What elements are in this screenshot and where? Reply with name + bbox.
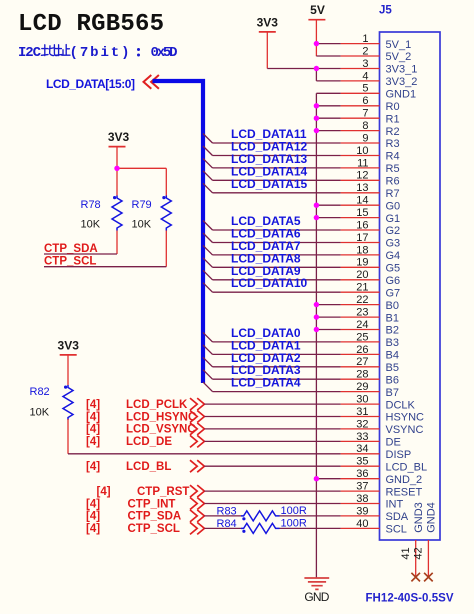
pin 20 stub — [341, 279, 380, 281]
pin 30 stub — [341, 403, 380, 405]
bus entry for LCD_DATA12 — [203, 146, 213, 156]
bus entry chevron for LCD_DATA[15:0] — [144, 75, 159, 89]
svg-text:[4]: [4] — [86, 411, 100, 423]
svg-text:9: 9 — [362, 132, 368, 144]
wire R8x to pin 39 — [280, 515, 341, 517]
svg-text:20: 20 — [356, 269, 368, 281]
wire 3V3 to R79 top — [165, 168, 167, 195]
wire LCD_DATA12 to pin 10 — [213, 155, 341, 157]
bus entry for LCD_DATA0 — [203, 332, 213, 342]
pin 19 stub — [341, 266, 380, 268]
pin 10 stub — [341, 155, 380, 157]
svg-text:3V3: 3V3 — [108, 130, 130, 144]
power symbol 3V3 (pins 3/4) — [257, 15, 279, 68]
resistor R82 body — [63, 385, 73, 420]
svg-text:16: 16 — [356, 219, 368, 231]
svg-text:B7: B7 — [386, 387, 399, 399]
svg-text:15: 15 — [356, 207, 368, 219]
svg-text:17: 17 — [356, 232, 368, 244]
bus entry for LCD_DATA3 — [203, 370, 213, 380]
junction GND pin22 — [314, 302, 319, 307]
pin 38 stub — [341, 503, 380, 505]
svg-text:LCD_DATA15: LCD_DATA15 — [231, 177, 308, 191]
pin 33 stub — [341, 440, 380, 442]
bus entry for LCD_DATA9 — [203, 270, 213, 280]
svg-text:12: 12 — [356, 170, 368, 182]
svg-text:3V3: 3V3 — [257, 15, 279, 29]
svg-text:R0: R0 — [386, 101, 400, 113]
svg-text:27: 27 — [356, 356, 368, 368]
pin 12 stub — [341, 179, 380, 181]
wire LCD_BL to pin 35 — [204, 465, 340, 467]
svg-text:21: 21 — [356, 282, 368, 294]
bus entry for LCD_DATA1 — [203, 345, 213, 355]
svg-text:10K: 10K — [81, 219, 101, 231]
R79 pin1 dot — [162, 196, 165, 199]
svg-text:GND3: GND3 — [413, 502, 425, 533]
svg-text:33: 33 — [356, 431, 368, 443]
wire 5V to pin 1 — [316, 43, 340, 45]
svg-text:LCD_PCLK: LCD_PCLK — [126, 399, 188, 411]
svg-text:CTP_SDA: CTP_SDA — [128, 511, 182, 523]
svg-text:R84: R84 — [217, 518, 237, 530]
pin 1 stub — [341, 43, 380, 45]
svg-text:R7: R7 — [386, 188, 400, 200]
svg-text:34: 34 — [356, 443, 368, 455]
junction GND pin7 — [314, 116, 319, 121]
svg-text:37: 37 — [356, 481, 368, 493]
svg-text:SCL: SCL — [386, 524, 407, 536]
svg-text:3V3_2: 3V3_2 — [386, 76, 418, 88]
pin 26 stub — [341, 353, 380, 355]
power symbol 5V — [308, 3, 325, 56]
bus entry for LCD_DATA5 — [203, 221, 213, 231]
svg-text:5V_2: 5V_2 — [386, 51, 412, 63]
svg-text:11: 11 — [357, 157, 368, 169]
wire LCD_HSYNC to pin 31 — [204, 416, 340, 418]
svg-text:LCD_VSYNC: LCD_VSYNC — [126, 424, 196, 436]
pin 13 stub — [341, 192, 380, 194]
wire LCD_VSYNC to pin 32 — [204, 428, 340, 430]
R83 pin1 dot — [242, 517, 245, 520]
svg-text:HSYNC: HSYNC — [386, 412, 425, 424]
pin 24 stub — [341, 329, 380, 331]
svg-text:B5: B5 — [386, 362, 399, 374]
svg-text:GND4: GND4 — [426, 502, 438, 533]
svg-text:3V3_1: 3V3_1 — [386, 64, 418, 76]
pin 14 stub — [341, 204, 380, 206]
svg-text:B6: B6 — [386, 374, 399, 386]
svg-text:4: 4 — [362, 70, 368, 82]
svg-text:[4]: [4] — [86, 511, 100, 523]
wire LCD_DATA2 to pin 27 — [213, 366, 341, 368]
svg-text:G4: G4 — [386, 250, 401, 262]
pin 16 stub — [341, 229, 380, 231]
svg-text:32: 32 — [356, 418, 368, 430]
svg-text:CTP_SDA: CTP_SDA — [44, 243, 98, 255]
svg-text:3V3: 3V3 — [58, 339, 80, 353]
svg-text:R2: R2 — [386, 126, 400, 138]
pin 6 stub — [341, 105, 380, 107]
svg-text:25: 25 — [356, 331, 368, 343]
svg-text:G7: G7 — [386, 287, 401, 299]
pin 29 stub — [341, 391, 380, 393]
svg-text:DISP: DISP — [386, 449, 412, 461]
svg-text:10: 10 — [356, 145, 368, 157]
svg-text:LCD_DATA10: LCD_DATA10 — [231, 276, 308, 290]
svg-text:G2: G2 — [386, 225, 401, 237]
wire R8x to pin 40 — [280, 527, 341, 529]
power symbol 3V3 (R78/R79 pull-ups) — [108, 130, 130, 169]
pin 42 stub — [427, 540, 429, 577]
port chevron LCD_PCLK — [190, 398, 204, 410]
svg-text:18: 18 — [356, 244, 368, 256]
svg-text:[4]: [4] — [86, 461, 100, 473]
svg-text:I2C: I2C — [18, 45, 42, 61]
pin 35 stub — [341, 465, 380, 467]
wire LCD_DATA13 to pin 11 — [213, 167, 341, 169]
svg-text:0x5D: 0x5D — [151, 45, 178, 61]
wire LCD_DATA6 to pin 17 — [213, 242, 341, 244]
svg-text:(7bit): (7bit) — [70, 45, 130, 61]
svg-text:3: 3 — [362, 58, 368, 70]
pin 37 stub — [341, 490, 380, 492]
port chevron CTP_SDA — [190, 510, 204, 522]
wire CTP_SCL net — [44, 266, 166, 268]
wire GND rail to pin 8 — [316, 130, 340, 132]
pin 31 stub — [341, 416, 380, 418]
svg-text:R78: R78 — [81, 199, 101, 211]
wire GND rail to pin 24 — [316, 329, 340, 331]
svg-text:30: 30 — [356, 394, 368, 406]
svg-text:G3: G3 — [386, 238, 401, 250]
wire LCD_DATA8 to pin 19 — [213, 266, 341, 268]
wire LCD_DATA11 to pin 9 — [213, 142, 341, 144]
wire LCD_DATA1 to pin 26 — [213, 353, 341, 355]
svg-text:29: 29 — [356, 381, 368, 393]
port chevron CTP_INT — [190, 498, 204, 510]
svg-text:G6: G6 — [386, 275, 401, 287]
wire GND vertical rail — [315, 93, 317, 578]
wire GND rail to pin 7 — [316, 117, 340, 119]
svg-text:J5: J5 — [379, 5, 392, 17]
wire R78 bottom to CTP_SDA — [116, 231, 118, 255]
svg-text:23: 23 — [356, 307, 368, 319]
svg-text:LCD RGB565: LCD RGB565 — [18, 11, 164, 38]
pin 5 stub — [341, 92, 380, 94]
wire LCD_DATA3 to pin 28 — [213, 378, 341, 380]
junction 3V3 pin3 — [314, 66, 319, 71]
svg-text:B0: B0 — [386, 300, 399, 312]
bus entry for LCD_DATA8 — [203, 258, 213, 268]
bus entry for LCD_DATA10 — [203, 283, 213, 293]
wire CTP_RST to pin 37 — [204, 490, 340, 492]
svg-text:INT: INT — [386, 499, 404, 511]
svg-text:42: 42 — [413, 547, 425, 559]
pin 34 stub — [341, 453, 380, 455]
pin 17 stub — [341, 242, 380, 244]
wire 5V to pin 2 — [316, 55, 340, 57]
svg-text:[4]: [4] — [86, 424, 100, 436]
port chevron CTP_RST — [190, 485, 204, 497]
svg-text:G0: G0 — [386, 200, 401, 212]
wire R78/R79 top tie — [117, 167, 166, 169]
pin 3 stub — [341, 68, 380, 70]
svg-text:R82: R82 — [30, 386, 50, 398]
svg-text:5V_1: 5V_1 — [386, 39, 412, 51]
svg-text:100R: 100R — [281, 518, 307, 530]
junction GND pin24 — [314, 327, 319, 332]
pin 36 stub — [341, 478, 380, 480]
svg-text:R5: R5 — [386, 163, 400, 175]
pin 39 stub — [341, 515, 380, 517]
wire CTP_SDA net — [44, 253, 117, 255]
svg-text:CTP_INT: CTP_INT — [128, 498, 176, 510]
wire R79 bottom to CTP_SCL — [165, 231, 167, 267]
bus entry for LCD_DATA6 — [203, 233, 213, 243]
svg-text:LCD_DATA[15:0]: LCD_DATA[15:0] — [46, 77, 135, 91]
svg-text:DE: DE — [386, 437, 401, 449]
svg-text:1: 1 — [362, 33, 368, 45]
port chevron CTP_SCL — [190, 522, 204, 534]
svg-text:28: 28 — [356, 369, 368, 381]
junction GND pin15 — [314, 215, 319, 220]
svg-text:39: 39 — [356, 505, 368, 517]
wire LCD_DATA0 to pin 25 — [213, 341, 341, 343]
subtitle I2C address note — [18, 45, 178, 61]
bus entry for LCD_DATA11 — [203, 134, 213, 144]
wire LCD_DATA5 to pin 16 — [213, 229, 341, 231]
svg-text:10K: 10K — [30, 406, 50, 418]
port chevron LCD_VSYNC — [190, 423, 204, 435]
wire R82 bottom — [67, 419, 69, 454]
svg-text:10K: 10K — [132, 219, 152, 231]
svg-text:CTP_SCL: CTP_SCL — [128, 523, 180, 535]
bus entry for LCD_DATA7 — [203, 245, 213, 255]
svg-text:LCD_HSYNC: LCD_HSYNC — [126, 411, 196, 423]
bus entry for LCD_DATA15 — [203, 183, 213, 193]
resistor R78 body — [112, 196, 122, 231]
svg-text:B3: B3 — [386, 337, 399, 349]
svg-text:2: 2 — [362, 45, 368, 57]
wire LCD_DATA7 to pin 18 — [213, 254, 341, 256]
bus entry for LCD_DATA4 — [203, 382, 213, 392]
connector J5 body — [380, 32, 441, 540]
svg-text:R83: R83 — [217, 506, 237, 518]
wire LCD_DATA10 to pin 21 — [213, 291, 341, 293]
wire GND rail to pin 22 — [316, 304, 340, 306]
wire 3V3 to pin 4 — [316, 80, 340, 82]
wire CTP_INT to pin 38 — [204, 503, 340, 505]
wire LCD_DATA9 to pin 20 — [213, 279, 341, 281]
wire 3V3 to pin 3 — [267, 68, 340, 70]
svg-text:R6: R6 — [386, 176, 400, 188]
svg-text:CTP_SCL: CTP_SCL — [44, 256, 96, 268]
svg-text:[4]: [4] — [86, 523, 100, 535]
junction 5V pin1 — [314, 41, 319, 46]
wire LCD_DATA14 to pin 12 — [213, 179, 341, 181]
ground symbol GND — [304, 578, 329, 589]
bus entry for LCD_DATA2 — [203, 357, 213, 367]
no-connect X on pin 41 — [411, 573, 420, 582]
wire LCD_DE to pin 33 — [204, 440, 340, 442]
svg-text:5: 5 — [362, 83, 368, 95]
svg-text:GND1: GND1 — [386, 89, 417, 101]
svg-text:38: 38 — [356, 493, 368, 505]
pin 7 stub — [341, 117, 380, 119]
svg-text:GND: GND — [304, 590, 329, 604]
junction GND pin23 — [314, 314, 319, 319]
wire LCD_DATA4 to pin 29 — [213, 391, 341, 393]
pin 23 stub — [341, 316, 380, 318]
junction GND pin14 — [314, 203, 319, 208]
svg-text:R79: R79 — [132, 199, 152, 211]
wire 3V3 drop to pin 4 row — [315, 69, 317, 81]
svg-text:5V: 5V — [310, 3, 325, 17]
svg-text:G5: G5 — [386, 263, 401, 275]
wire GND to pin 5 — [316, 92, 340, 94]
junction GND pin36 — [314, 476, 319, 481]
wire LCD_PCLK to pin 30 — [204, 403, 340, 405]
R82 pin1 dot — [64, 386, 67, 389]
svg-text:VSYNC: VSYNC — [386, 424, 424, 436]
svg-text:31: 31 — [356, 406, 368, 418]
port chevron LCD_HSYNC — [190, 411, 204, 423]
bus entry for LCD_DATA13 — [203, 158, 213, 168]
no-connect X on pin 42 — [424, 573, 433, 582]
wire GND rail to pin 15 — [316, 217, 340, 219]
junction GND pin6 — [314, 103, 319, 108]
svg-text:41: 41 — [400, 547, 412, 559]
pin 15 stub — [341, 217, 380, 219]
svg-text:13: 13 — [356, 182, 368, 194]
R78 pin1 dot — [113, 196, 116, 199]
pin 27 stub — [341, 366, 380, 368]
svg-text:FH12-40S-0.5SV: FH12-40S-0.5SV — [366, 593, 454, 605]
port chevron LCD_BL — [190, 460, 204, 472]
pin 4 stub — [341, 80, 380, 82]
port chevron LCD_DE — [190, 435, 204, 447]
svg-text:6: 6 — [362, 95, 368, 107]
R84 pin1 dot — [242, 530, 245, 533]
svg-text:GND_2: GND_2 — [386, 474, 423, 486]
svg-text:36: 36 — [356, 468, 368, 480]
svg-text:LCD_BL: LCD_BL — [126, 461, 171, 473]
bus entry for LCD_DATA14 — [203, 171, 213, 181]
svg-text:R3: R3 — [386, 138, 400, 150]
svg-text:G1: G1 — [386, 213, 401, 225]
wire GND rail to pin 23 — [316, 316, 340, 318]
wire CTP_SCL to R8x — [204, 527, 241, 529]
pin 21 stub — [341, 291, 380, 293]
pin 9 stub — [341, 142, 380, 144]
pin 18 stub — [341, 254, 380, 256]
svg-text:7: 7 — [362, 108, 368, 120]
junction 3V3/R78/R79 — [114, 166, 119, 171]
svg-text:LCD_DATA4: LCD_DATA4 — [231, 376, 301, 390]
svg-text:R1: R1 — [386, 113, 400, 125]
svg-text:RESET: RESET — [386, 486, 423, 498]
svg-text:[4]: [4] — [97, 486, 111, 498]
wire 3V3 to R78 top — [116, 168, 118, 195]
pin 11 stub — [341, 167, 380, 169]
svg-text:LCD_BL: LCD_BL — [386, 461, 428, 473]
svg-text:8: 8 — [362, 120, 368, 132]
svg-text:LCD_DE: LCD_DE — [126, 436, 172, 448]
svg-text:40: 40 — [356, 518, 368, 530]
wire GND rail to pin 14 — [316, 204, 340, 206]
svg-text:22: 22 — [356, 294, 368, 306]
svg-text:14: 14 — [356, 195, 368, 207]
svg-text:CTP_RST: CTP_RST — [137, 486, 189, 498]
svg-text:[4]: [4] — [86, 399, 100, 411]
wire R82 to pin 34 DISP — [68, 453, 341, 455]
power symbol 3V3 (R82) — [58, 339, 80, 386]
pin 8 stub — [341, 130, 380, 132]
svg-text:B2: B2 — [386, 325, 399, 337]
wire GND rail to pin 6 — [316, 105, 340, 107]
svg-text:24: 24 — [356, 319, 368, 331]
resistor R84 body — [241, 523, 280, 533]
pin 40 stub — [341, 527, 380, 529]
wire GND rail to pin 36 — [316, 478, 340, 480]
wire CTP_SDA to R8x — [204, 515, 241, 517]
svg-text:[4]: [4] — [86, 498, 100, 510]
svg-text:26: 26 — [356, 344, 368, 356]
resistor R83 body — [241, 511, 280, 521]
svg-text:R4: R4 — [386, 151, 400, 163]
junction GND pin8 — [314, 128, 319, 133]
pin 28 stub — [341, 378, 380, 380]
resistor R79 body — [161, 196, 171, 231]
pin 22 stub — [341, 304, 380, 306]
svg-text:100R: 100R — [281, 505, 307, 517]
svg-text:35: 35 — [356, 456, 368, 468]
svg-text:SDA: SDA — [386, 511, 409, 523]
svg-text:[4]: [4] — [86, 436, 100, 448]
svg-text:B4: B4 — [386, 350, 399, 362]
pin 25 stub — [341, 341, 380, 343]
pin 32 stub — [341, 428, 380, 430]
bus LCD_DATA[15:0] — [153, 81, 204, 383]
svg-text:B1: B1 — [386, 312, 399, 324]
pin 41 stub — [415, 540, 417, 577]
wire LCD_DATA15 to pin 13 — [213, 192, 341, 194]
svg-text:19: 19 — [356, 257, 368, 269]
svg-text:DCLK: DCLK — [386, 399, 416, 411]
pin 2 stub — [341, 55, 380, 57]
